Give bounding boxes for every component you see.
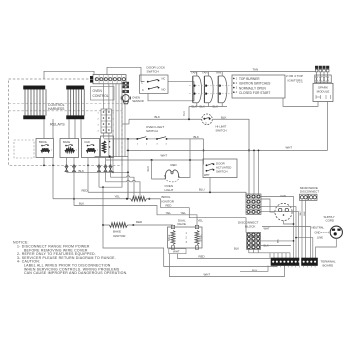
mechanical link dashed	[189, 85, 232, 87]
wire oven light return	[179, 139, 191, 178]
wire door switch to BLU	[209, 178, 211, 193]
wires fan to grid	[261, 199, 275, 212]
wire spark module right pin down	[327, 102, 329, 151]
terminal board pin ticks	[272, 266, 274, 268]
WHT return wire	[169, 254, 284, 277]
disconnect block upper grid	[246, 194, 261, 214]
wires grid to terminal board right	[261, 197, 294, 259]
wire hook into terminal board	[240, 266, 268, 272]
oven light bulb DS1	[164, 170, 179, 182]
BLK bus to hi-limit	[129, 118, 202, 120]
door lock switch S1	[140, 75, 169, 93]
microwave wires down	[301, 200, 303, 258]
broil ignitor R1	[53, 198, 131, 200]
terminal board strip 1	[271, 258, 300, 266]
spark module ignitor pins	[315, 66, 329, 75]
microwave connector pair 2	[309, 194, 317, 200]
wire door lock loop	[148, 82, 194, 101]
ignition switch module 1	[193, 72, 202, 107]
relay K4 box	[101, 136, 114, 158]
hi-limit switch S2	[202, 114, 213, 125]
bake ignitor R2	[103, 224, 109, 226]
wire oven light switch to door switch riser	[167, 138, 203, 140]
microwave connector pair 1	[300, 194, 308, 200]
WHT bus upper	[127, 149, 328, 151]
wire spark module left pin to switch box	[283, 98, 318, 106]
terminal board feed stubs	[269, 253, 271, 258]
door actuated switch S4	[203, 159, 237, 178]
wire relay to broil valve	[74, 206, 197, 226]
WHT bus lower	[106, 159, 204, 161]
wires ribbon J1 to relays	[43, 119, 45, 139]
oven sensor probe	[121, 95, 130, 104]
ignition switch module 2	[204, 72, 213, 107]
wire bake loop	[103, 187, 277, 266]
dual row connector P2	[101, 109, 111, 133]
control area dashed enclosure	[9, 79, 123, 165]
wire broil ignitor to disconnect	[161, 199, 246, 233]
spark module input connector	[315, 75, 331, 83]
control harness dashed divider	[9, 103, 123, 105]
wire oven light switch riser down	[127, 139, 129, 199]
wire ignition switches to black bus	[189, 106, 227, 108]
wires lower grid to terminal board	[249, 249, 290, 253]
wire red riser to oven light	[152, 160, 166, 179]
ignition switch note box	[232, 75, 285, 98]
oven light switch S3	[104, 137, 168, 146]
ribbon connector J1	[24, 86, 47, 119]
oven control connector P1	[90, 75, 126, 84]
collector wire under relays	[95, 156, 129, 158]
nested corner wires	[111, 176, 127, 178]
wire BLK to middle	[67, 172, 129, 199]
wires into upper grid	[253, 150, 255, 194]
wires into connector P2	[103, 84, 105, 109]
wires ribbon J2 to relays	[68, 119, 70, 139]
wire lower grid to riser	[261, 240, 294, 242]
wire oven control to door lock	[107, 67, 145, 81]
WHT junction label box	[169, 249, 186, 254]
dual valve box	[168, 218, 203, 249]
RED return wire	[178, 254, 271, 259]
wire hi-limit to disconnect riser	[213, 119, 249, 194]
junction dots on enclosure bottom	[43, 164, 45, 166]
line wire run	[296, 238, 313, 258]
ribbon connector J2	[67, 86, 85, 119]
relay drop wires with disconnects	[43, 158, 45, 166]
small dashed option box	[14, 140, 34, 158]
terminal board strip 2	[302, 258, 318, 266]
supply cord tail	[316, 238, 337, 258]
wire oven control to harness	[44, 71, 94, 79]
relay K3 FAN	[82, 139, 100, 158]
relay K1 BROIL	[36, 139, 54, 158]
notice text block	[13, 241, 128, 276]
fan motor M1	[275, 203, 292, 220]
BLU bus	[88, 192, 246, 196]
oven control harness verticals	[112, 84, 114, 157]
tan bus wire	[190, 71, 316, 73]
oven sensor connector pins	[123, 82, 129, 93]
valve bake coil	[171, 231, 175, 245]
valve broil coil	[195, 231, 199, 245]
disconnect block lower grid	[247, 233, 261, 250]
scan grain overlay	[10, 62, 343, 284]
relay K2 BAKE	[60, 139, 79, 158]
neutral wire run	[262, 227, 311, 259]
spark module box	[313, 83, 333, 101]
ignition switch module 3	[218, 72, 227, 107]
supply cord plug	[330, 226, 342, 238]
label OVEN CONTROL	[91, 87, 115, 101]
